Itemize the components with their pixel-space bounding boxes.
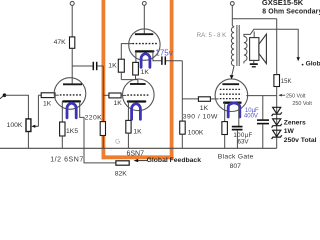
wire feedback riser from V1 cathode xyxy=(80,101,116,162)
svg-text:390 / 10W: 390 / 10W xyxy=(183,113,218,120)
svg-text:250 Volt: 250 Volt xyxy=(292,101,312,107)
V4 plate xyxy=(222,83,239,85)
top cap arrow xyxy=(230,75,234,79)
terminal B+ SRPP xyxy=(142,2,146,6)
zener D2 xyxy=(272,119,282,128)
ground speaker xyxy=(244,60,258,66)
V3 heater filament xyxy=(132,104,141,120)
wire V2 cathode to R8 xyxy=(135,51,137,62)
resistor R8 1K cathode V2 xyxy=(133,62,150,76)
V4 heater filament xyxy=(228,103,240,117)
transformer T1 primary xyxy=(231,27,234,66)
terminal B+ output xyxy=(230,2,234,6)
svg-text:175v: 175v xyxy=(155,48,172,57)
transformer T1 core xyxy=(236,25,238,66)
V4 grid g3 xyxy=(220,88,242,90)
resistor R3 1K5 cathode xyxy=(60,122,79,136)
V1 cathode xyxy=(63,100,80,102)
resistor R1 1K grid stopper V1 xyxy=(41,93,59,108)
wire wiper to grid resistor xyxy=(37,95,39,126)
wire B+ to 15K xyxy=(276,19,278,75)
V2 plate xyxy=(135,33,153,35)
resistor R2 47K plate load xyxy=(54,37,75,48)
svg-text:Global Feedback: Global Feedback xyxy=(147,157,202,164)
wire B+ rail xyxy=(232,6,234,28)
svg-text:1K: 1K xyxy=(114,100,123,107)
zener D3 xyxy=(272,130,282,139)
arrow to 82K xyxy=(134,159,147,162)
wire R11 to ground xyxy=(181,134,183,148)
V4 grid g2 xyxy=(220,93,242,95)
speaker LS1 xyxy=(250,32,267,64)
V4 grid g1 xyxy=(220,98,242,100)
svg-text:400V: 400V xyxy=(244,114,258,120)
wire zener chain xyxy=(276,96,278,149)
pentode V4 807 envelope xyxy=(215,79,248,112)
svg-text:807: 807 xyxy=(230,163,242,170)
svg-text:GXSE15-5K: GXSE15-5K xyxy=(262,0,304,7)
zener D1 xyxy=(272,107,282,116)
svg-text:100K: 100K xyxy=(188,130,204,137)
wire R6 to ground xyxy=(127,133,129,148)
svg-text:250 Volt: 250 Volt xyxy=(286,93,306,99)
V4 top cap xyxy=(230,75,234,79)
triode V1 1/2 6SN7 envelope xyxy=(54,78,86,110)
wire V4 cathode to C3 xyxy=(238,103,240,126)
svg-text:1K: 1K xyxy=(108,63,117,70)
resistor R4 220K grid leak xyxy=(85,114,106,135)
svg-text:100K: 100K xyxy=(7,122,23,129)
ground bus xyxy=(0,147,277,149)
wire terminal to 47K xyxy=(71,6,73,37)
wire cathode to R3 xyxy=(61,101,63,122)
svg-text:1/2 6SN7: 1/2 6SN7 xyxy=(50,156,84,163)
svg-text:1K: 1K xyxy=(141,69,150,76)
wire R8 to junction xyxy=(135,75,137,80)
resistor R12 390 10W xyxy=(183,113,228,134)
svg-text:15K: 15K xyxy=(281,79,292,85)
resistor R5 1K grid stopper V3 xyxy=(109,93,126,107)
V2 heater filament xyxy=(141,54,150,68)
wire secondary to feedback tap xyxy=(244,29,298,57)
triode V2 upper SRPP envelope xyxy=(129,29,160,60)
resistor R11 100K grid leak 807 xyxy=(180,121,204,137)
svg-text:1W: 1W xyxy=(284,128,295,135)
wire R3 to ground xyxy=(61,136,63,148)
svg-text:1K: 1K xyxy=(200,105,209,112)
svg-text:63V: 63V xyxy=(238,138,250,145)
wire R7 to junction xyxy=(120,72,122,79)
resistor R7 1K grid V2 xyxy=(108,59,124,72)
wire C1 to V3 grid node xyxy=(102,66,104,122)
svg-text:250v Total: 250v Total xyxy=(284,137,317,144)
capacitor C2 coupling SRPP out xyxy=(153,51,182,64)
orange highlight box around SRPP stage xyxy=(102,0,174,159)
wire C2 to 807 grid node xyxy=(181,61,183,121)
annotation 250 Volt arrow xyxy=(278,93,306,99)
wire V3 cathode to R6 xyxy=(127,102,129,121)
V1 plate xyxy=(63,83,82,85)
svg-text:8 Ohm Secondary: 8 Ohm Secondary xyxy=(262,9,320,16)
input node dot xyxy=(0,96,3,99)
wire V4 cathode to R12 xyxy=(224,103,226,122)
svg-text:Zeners: Zeners xyxy=(284,120,306,127)
V2 grid xyxy=(132,43,157,45)
resistor R10 1K grid stopper 807 xyxy=(198,97,218,112)
wire SRPP junction xyxy=(121,79,138,81)
capacitor C1 coupling xyxy=(72,62,103,70)
svg-text:1K: 1K xyxy=(133,129,142,136)
V1 heater filament xyxy=(67,103,76,118)
V3 plate xyxy=(130,83,146,85)
arrow feedback tap xyxy=(297,57,300,61)
svg-text:1K: 1K xyxy=(43,100,52,107)
svg-text:1K5: 1K5 xyxy=(66,128,78,135)
potentiometer VR1 100K xyxy=(7,119,39,148)
svg-text:82K: 82K xyxy=(115,170,128,177)
capacitor C4 10uF 400V xyxy=(244,96,269,149)
transformer T1 secondary xyxy=(244,36,247,61)
wire input to pot xyxy=(5,95,29,119)
wire V2 grid to R7 xyxy=(121,44,132,60)
wire terminal to V2 plate xyxy=(143,5,145,33)
V3 grid xyxy=(127,94,148,96)
svg-text:Global: Global xyxy=(306,61,320,68)
svg-text:Black Gate: Black Gate xyxy=(218,154,254,161)
V1 grid xyxy=(60,94,82,96)
resistor R13 15K screen feed xyxy=(274,75,292,87)
resistor R9 82K feedback xyxy=(115,161,130,178)
triode V3 lower SRPP envelope xyxy=(123,79,155,111)
V2 cathode xyxy=(136,50,153,52)
svg-text:220K: 220K xyxy=(85,114,103,121)
resistor R6 1K cathode V3 xyxy=(126,120,142,135)
capacitor C3 100uF Black Gate xyxy=(232,127,253,149)
V3 cathode xyxy=(128,100,145,102)
terminal B+ V1 xyxy=(70,1,74,5)
wire 15K to screen node xyxy=(276,87,278,96)
svg-text:6SN7: 6SN7 xyxy=(127,151,145,158)
wire 47K to plate xyxy=(71,48,73,83)
wire R4 to ground xyxy=(102,136,104,149)
wire V4 screen to regulator node xyxy=(246,95,277,97)
svg-text:47K: 47K xyxy=(54,39,67,46)
svg-text:RA: 5 - 8 K: RA: 5 - 8 K xyxy=(197,33,226,39)
wire R12 to ground xyxy=(224,135,226,149)
V4 cathode xyxy=(224,101,240,103)
wire primary to top cap xyxy=(232,66,234,76)
